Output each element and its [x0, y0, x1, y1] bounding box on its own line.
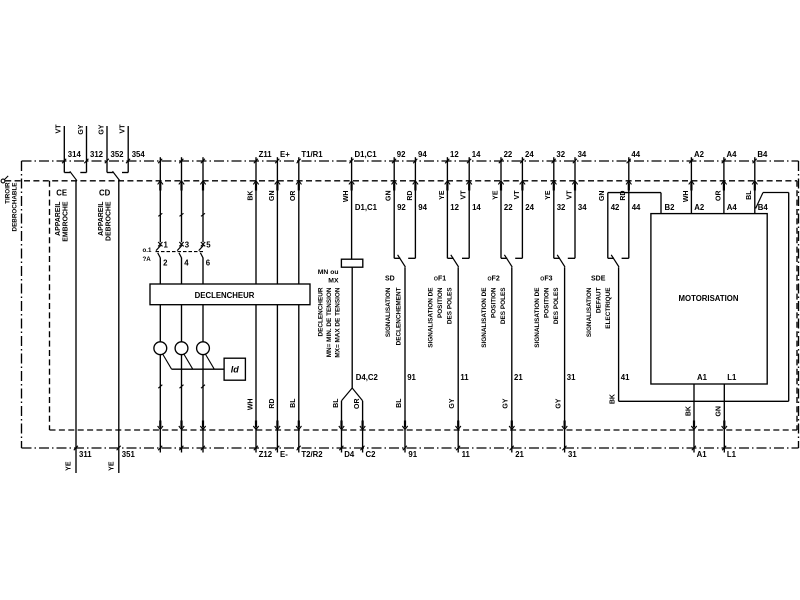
svg-text:DES POLES: DES POLES [553, 287, 560, 324]
pole contact blade 5-6 [199, 245, 204, 250]
svg-text:354: 354 [132, 150, 146, 159]
svg-text:GY: GY [503, 398, 510, 408]
svg-text:92: 92 [397, 203, 406, 212]
label OF2 SIGNALISATION DE POSITION DES POLES [481, 287, 507, 348]
contact OF3 foot left [554, 257, 560, 259]
svg-text:VT: VT [56, 124, 63, 134]
svg-text:YE: YE [492, 190, 499, 200]
svg-text:SIGNALISATION: SIGNALISATION [586, 287, 593, 337]
svg-text:ELECTRIQUE: ELECTRIQUE [605, 287, 612, 329]
wire pole 1 to bottom contact [158, 355, 163, 453]
svg-text:WH: WH [683, 191, 690, 203]
svg-text:22: 22 [504, 203, 513, 212]
svg-text:BK: BK [247, 191, 254, 201]
wire split branch C2 [352, 388, 365, 453]
breaker boundary frame (dashed) [5, 181, 797, 430]
contact SD blade [398, 255, 406, 267]
svg-text:D4,C2: D4,C2 [356, 373, 379, 382]
svg-text:GY: GY [78, 124, 85, 134]
svg-text:Z11: Z11 [259, 150, 273, 159]
wire earth-fault summation bus [172, 368, 225, 370]
contact CD foot right (354) [122, 172, 128, 174]
svg-text:A1: A1 [697, 450, 708, 459]
wire pole 3 to bottom contact [200, 355, 205, 453]
contact OF1 foot left [447, 257, 453, 259]
contact CE blade [70, 171, 77, 181]
svg-text:YE: YE [66, 461, 73, 471]
wire 41 loop joint to B4 [756, 193, 763, 209]
svg-text:EMBROCHE: EMBROCHE [63, 201, 70, 242]
pole lower link 4 [179, 253, 182, 258]
svg-text:YE: YE [439, 190, 446, 200]
motor box MOTORISATION [651, 214, 767, 384]
svg-text:11: 11 [460, 373, 469, 382]
svg-text:C2: C2 [366, 450, 377, 459]
contact OF2 blade [504, 255, 512, 267]
svg-text:A2: A2 [694, 150, 705, 159]
wire CT2 pickup diagonal [184, 354, 193, 370]
current sensor CT1 [154, 342, 167, 355]
svg-text:A4: A4 [727, 203, 738, 212]
wire 41 loop bottom [619, 400, 789, 402]
svg-text:DECLENCHEUR: DECLENCHEUR [318, 287, 325, 336]
label breaker rating [143, 247, 152, 263]
svg-text:GY: GY [555, 398, 562, 408]
svg-text:BL: BL [333, 398, 340, 408]
label MN ou MX [318, 269, 339, 285]
svg-text:TIROIR: TIROIR [4, 182, 11, 204]
wire pole lower (terminal 2) [159, 258, 161, 284]
svg-text:352: 352 [111, 150, 125, 159]
svg-text:GY: GY [449, 398, 456, 408]
pole contact terminal mark x5 [201, 242, 205, 246]
svg-text:VT: VT [566, 190, 573, 200]
wire E+ to E- [275, 157, 280, 452]
label OF3 SIGNALISATION DE POSITION DES POLES [534, 287, 560, 348]
withdrawable-cradle racking handle symbol [1, 176, 8, 183]
svg-text:DECLENCHEMENT: DECLENCHEMENT [396, 287, 403, 345]
svg-text:14: 14 [472, 150, 481, 159]
svg-text:YE: YE [108, 461, 115, 471]
wire terminal 312 [84, 126, 88, 173]
label SIGNALISATION DECLENCHEMENT [385, 287, 403, 345]
current sensor CT3 [197, 342, 210, 355]
svg-text:SD: SD [385, 275, 395, 282]
svg-text:B4: B4 [757, 150, 768, 159]
wire terminal 314 [62, 126, 66, 173]
svg-text:DES POLES: DES POLES [500, 287, 507, 324]
svg-text:YE: YE [545, 190, 552, 200]
svg-text:314: 314 [68, 150, 82, 159]
svg-text:GY: GY [98, 124, 105, 134]
svg-text:A1: A1 [697, 373, 708, 382]
svg-text:WH: WH [343, 191, 350, 203]
wire terminal 12 of OF1 [445, 157, 450, 258]
cradle boundary frame (dash-dot) [22, 161, 799, 448]
svg-text:CD: CD [99, 189, 111, 198]
svg-text:APPAREIL: APPAREIL [55, 202, 62, 236]
svg-text:SDE: SDE [591, 275, 606, 282]
svg-text:RD: RD [620, 191, 627, 201]
svg-text:31: 31 [568, 450, 577, 459]
svg-text:MX= MAX DE TENSION: MX= MAX DE TENSION [335, 287, 342, 358]
svg-text:OR: OR [290, 191, 297, 202]
wire terminal 14 of OF1 [467, 157, 472, 258]
wire pole 2 below trip unit [181, 305, 183, 342]
svg-text:12: 12 [450, 150, 459, 159]
contact SDE blade [611, 255, 619, 267]
svg-text:L1: L1 [727, 450, 737, 459]
svg-text:T2/R2: T2/R2 [301, 450, 323, 459]
svg-text:MOTORISATION: MOTORISATION [679, 294, 739, 303]
svg-text:A4: A4 [727, 150, 738, 159]
svg-text:CE: CE [56, 189, 67, 198]
svg-text:6: 6 [206, 259, 211, 268]
svg-text:22: 22 [504, 150, 513, 159]
contact CE foot left (314) [64, 172, 70, 174]
contact SD foot right [408, 257, 415, 259]
wire pole upper (terminal 1) [158, 157, 163, 242]
svg-text:POSITION: POSITION [491, 287, 498, 318]
svg-text:21: 21 [514, 373, 523, 382]
pole contact terminal mark x3 [179, 242, 183, 246]
wire terminal 22 of OF2 [498, 157, 503, 258]
contact OF3 blade [557, 255, 565, 267]
svg-text:SIGNALISATION: SIGNALISATION [385, 287, 392, 337]
svg-text:Z12: Z12 [259, 450, 273, 459]
svg-text:94: 94 [418, 203, 427, 212]
contact OF1 foot right [462, 257, 469, 259]
wire terminal 94 of SD [413, 157, 418, 258]
svg-text:21: 21 [515, 450, 524, 459]
svg-text:14: 14 [472, 203, 481, 212]
svg-text:MN= MIN. DE TENSION: MN= MIN. DE TENSION [326, 287, 333, 357]
wire SDE common 41 [618, 267, 620, 401]
pole lower link 6 [200, 253, 203, 258]
wire terminal A2 to motor [689, 157, 694, 213]
svg-text:OF1: OF1 [434, 275, 446, 282]
svg-text:11: 11 [462, 450, 471, 459]
contact CD foot left (352) [107, 172, 113, 174]
svg-text:WH: WH [247, 399, 254, 411]
contact OF1 blade [451, 255, 459, 267]
pole contact blade 1-2 [156, 245, 161, 250]
contact OF2 foot left [501, 257, 507, 259]
contact SD foot left [394, 257, 400, 259]
wire CT1 pickup diagonal [162, 354, 171, 370]
wire 41 loop top [763, 192, 789, 194]
svg-text:VT: VT [514, 190, 521, 200]
pole mechanical linkage (dashed) [156, 251, 204, 253]
current sensor CT2 [175, 342, 188, 355]
svg-text:RD: RD [269, 399, 276, 409]
svg-text:94: 94 [418, 150, 427, 159]
wire terminal 32 of OF3 [551, 157, 556, 258]
svg-text:SIGNALISATION DE: SIGNALISATION DE [481, 287, 488, 348]
wire motor L1 [722, 384, 727, 453]
coil MN/MX [341, 259, 362, 267]
svg-text:OF2: OF2 [488, 275, 500, 282]
svg-text:D4: D4 [344, 450, 355, 459]
svg-text:32: 32 [557, 203, 566, 212]
svg-text:DEFAUT: DEFAUT [596, 287, 603, 313]
svg-text:BL: BL [396, 398, 403, 408]
wire pole lower (terminal 4) [181, 258, 183, 284]
label APPAREIL EMBROCHE [55, 201, 70, 242]
svg-text:44: 44 [631, 150, 640, 159]
svg-text:OR: OR [354, 399, 361, 410]
svg-text:T1/R1: T1/R1 [301, 150, 323, 159]
wire Z11 to Z12 [253, 157, 258, 452]
svg-text:311: 311 [79, 450, 92, 459]
wire terminal 354 [126, 126, 130, 173]
label SIGNALISATION DEFAUT ELECTRIQUE [586, 287, 612, 337]
wire 42 of SDE to motor B2 [608, 193, 661, 259]
svg-text:92: 92 [397, 150, 406, 159]
svg-text:B2: B2 [665, 203, 676, 212]
svg-text:RD: RD [407, 191, 414, 201]
svg-text:GN: GN [269, 191, 276, 202]
svg-text:A2: A2 [694, 203, 705, 212]
wire T1/R1 to T2/R2 [296, 157, 301, 452]
wire pole 3 below trip unit [202, 305, 204, 342]
wire CE common to terminal 311 [74, 181, 78, 473]
svg-text:312: 312 [90, 150, 104, 159]
wire pole lower (terminal 6) [202, 258, 204, 284]
wire terminal 24 of OF2 [520, 157, 525, 258]
svg-text:D1,C1: D1,C1 [355, 203, 378, 212]
wire SD common to terminal 91 [402, 267, 407, 452]
svg-text:MX: MX [328, 278, 339, 285]
svg-text:APPAREIL: APPAREIL [98, 202, 105, 236]
trip unit box DECLENCHEUR [150, 284, 310, 305]
svg-text:L1: L1 [727, 373, 737, 382]
label OF1 SIGNALISATION DE POSITION DES POLES [428, 287, 454, 348]
svg-text:34: 34 [578, 150, 587, 159]
svg-text:BL: BL [746, 190, 753, 200]
wire terminal B4 to motor [752, 157, 757, 213]
pole contact terminal mark x1 [158, 242, 162, 246]
svg-text:12: 12 [450, 203, 459, 212]
svg-text:44: 44 [632, 203, 641, 212]
contact OF2 foot right [515, 257, 522, 259]
svg-text:5: 5 [206, 241, 211, 250]
contact SDE foot left [608, 257, 614, 259]
svg-text:41: 41 [621, 373, 630, 382]
label APPAREIL DEBROCHE [98, 201, 113, 241]
wire D1,C1 from terminal [349, 157, 354, 259]
label voltage release text [318, 287, 342, 358]
svg-text:BL: BL [290, 398, 297, 408]
wire OF1 common to terminal 11 [456, 267, 461, 452]
svg-text:OR: OR [715, 191, 722, 202]
svg-text:DES POLES: DES POLES [447, 287, 454, 324]
svg-text:VT: VT [461, 190, 468, 200]
wire pole 1 below trip unit [159, 305, 161, 342]
wire CT3 pickup diagonal [205, 354, 214, 370]
svg-text:1: 1 [164, 241, 169, 250]
svg-text:GN: GN [599, 191, 606, 202]
svg-text:BK: BK [685, 406, 692, 416]
wire terminal A4 to motor [721, 157, 726, 213]
wire D1,C1 coil to split [351, 267, 353, 388]
svg-text:351: 351 [122, 450, 136, 459]
svg-text:91: 91 [408, 450, 417, 459]
svg-text:B4: B4 [758, 203, 769, 212]
svg-text:31: 31 [567, 373, 576, 382]
wire OF2 common to terminal 21 [509, 267, 514, 452]
pole contact blade 3-4 [177, 245, 182, 250]
pole lower link 2 [158, 253, 161, 258]
wire terminal 352 [105, 126, 109, 173]
wire CD common to terminal 351 [117, 181, 121, 473]
wire OF3 common to terminal 31 [562, 267, 567, 452]
svg-text:OF3: OF3 [540, 275, 552, 282]
wire pole upper (terminal 3) [179, 157, 184, 242]
contact SDE foot right [622, 257, 629, 259]
svg-text:24: 24 [525, 150, 534, 159]
svg-text:DEBROCHABLE: DEBROCHABLE [11, 183, 18, 232]
wire motor A1 [691, 384, 696, 453]
wire terminal 34 of OF3 [572, 157, 577, 258]
wire pole 2 to bottom contact [179, 355, 184, 453]
svg-text:E+: E+ [280, 150, 290, 159]
svg-text:DECLENCHEUR: DECLENCHEUR [195, 291, 255, 300]
svg-text:GN: GN [716, 406, 723, 417]
contact OF3 foot right [568, 257, 575, 259]
svg-text:D1,C1: D1,C1 [355, 150, 378, 159]
svg-text:MN ou: MN ou [318, 269, 339, 276]
svg-text:42: 42 [611, 203, 620, 212]
svg-text:GN: GN [386, 191, 393, 202]
svg-text:4: 4 [184, 259, 189, 268]
svg-text:DEBROCHE: DEBROCHE [106, 201, 113, 241]
wire 41 loop right riser [788, 193, 790, 402]
svg-text:32: 32 [556, 150, 565, 159]
svg-text:?A: ?A [143, 256, 152, 263]
contact CD blade [113, 171, 120, 181]
svg-text:E-: E- [280, 450, 288, 459]
svg-text:Id: Id [231, 365, 240, 375]
svg-text:POSITION: POSITION [437, 287, 444, 318]
wire terminal 44 of SDE [626, 157, 631, 258]
wire pole upper (terminal 5) [200, 157, 205, 242]
wire split branch D4 [339, 388, 352, 453]
svg-text:34: 34 [578, 203, 587, 212]
svg-text:BK: BK [609, 394, 616, 404]
svg-text:POSITION: POSITION [543, 287, 550, 318]
wire terminal 92 of SD [392, 157, 397, 258]
svg-text:91: 91 [407, 373, 416, 382]
contact CE foot right (312) [80, 172, 86, 174]
svg-text:VT: VT [120, 124, 127, 134]
svg-text:o.1: o.1 [143, 247, 152, 254]
svg-text:SIGNALISATION DE: SIGNALISATION DE [428, 287, 435, 348]
label TIROIR DEBROCHABLE [4, 182, 18, 231]
svg-text:SIGNALISATION DE: SIGNALISATION DE [534, 287, 541, 348]
svg-text:3: 3 [185, 241, 190, 250]
svg-text:2: 2 [163, 259, 168, 268]
svg-text:24: 24 [525, 203, 534, 212]
earth fault box Id [224, 358, 245, 380]
